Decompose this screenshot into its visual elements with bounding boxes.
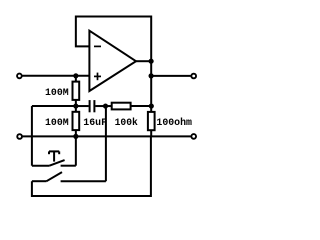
svg-text:100M: 100M bbox=[45, 118, 69, 129]
resistor R3 100k bbox=[106, 103, 152, 110]
wire feedback loop from output node to inverting input bbox=[76, 17, 151, 62]
capacitor C1 16uF bbox=[76, 100, 106, 112]
switch S2 toggle bbox=[32, 172, 106, 181]
switch S1 push button bbox=[32, 106, 76, 166]
node dot at right terminal junction bbox=[149, 73, 154, 78]
node dot at cap-left junction bbox=[73, 103, 78, 108]
op-amp U1 bbox=[89, 31, 136, 91]
wire left input terminal to non-inverting input bbox=[22, 75, 89, 77]
terminal bottom-right bbox=[191, 134, 196, 139]
resistor R4 100ohm bbox=[148, 106, 155, 136]
svg-text:100k: 100k bbox=[115, 117, 138, 129]
node dot at op-amp output bbox=[149, 59, 154, 64]
svg-text:100M: 100M bbox=[45, 88, 69, 99]
wire op-amp output stub bbox=[136, 60, 151, 62]
terminal bottom-left bbox=[17, 134, 22, 139]
wire S2 left post down and bottom return loop bbox=[32, 136, 151, 196]
wire to right output terminal bbox=[151, 75, 191, 77]
node dot at +input junction bbox=[73, 73, 78, 78]
svg-text:16uF: 16uF bbox=[83, 118, 107, 129]
resistor R2 100M bbox=[73, 106, 80, 136]
terminal top-right bbox=[191, 74, 196, 79]
terminal top-left bbox=[17, 74, 22, 79]
node dot at cap-right junction bbox=[103, 103, 108, 108]
wire S2 right post up to cap node bbox=[105, 106, 107, 181]
wire output column down to middle node bbox=[150, 61, 152, 106]
wire bottom rail bbox=[22, 135, 190, 137]
node dot at R2 bottom rail junction bbox=[73, 134, 78, 139]
resistor R1 100M bbox=[73, 76, 80, 106]
wire cap-left node across to push switch column bbox=[32, 105, 76, 107]
node dot at R3/R4 junction bbox=[149, 103, 154, 108]
svg-text:100ohm: 100ohm bbox=[156, 117, 192, 129]
